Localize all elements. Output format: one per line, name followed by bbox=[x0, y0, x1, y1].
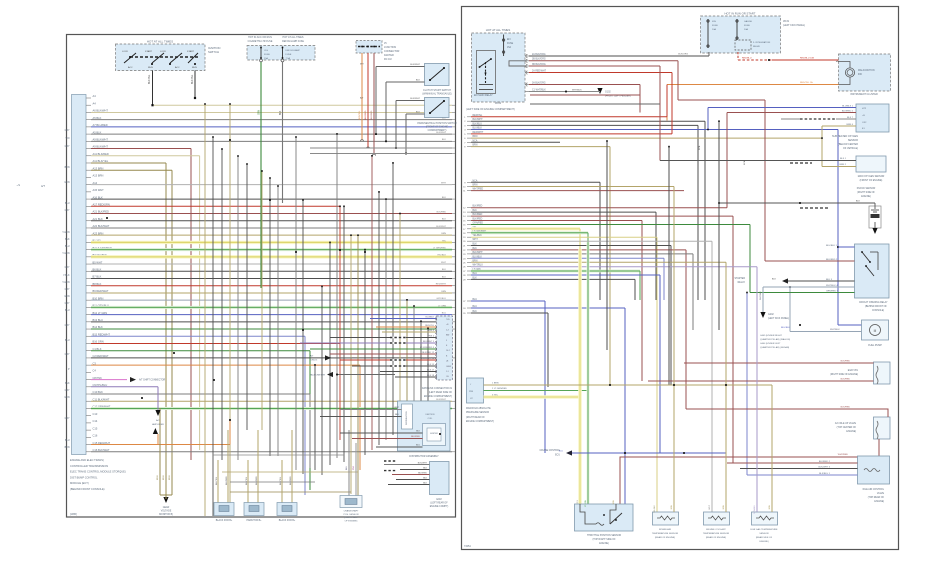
svg-text:BLU: BLU bbox=[65, 246, 70, 248]
svg-text:A/T SHIFT CONNECTOR: A/T SHIFT CONNECTOR bbox=[139, 379, 166, 382]
svg-text:HOT IN RUN OR START: HOT IN RUN OR START bbox=[725, 12, 756, 16]
svg-text:(RIGHT SIDE: (RIGHT SIDE bbox=[344, 517, 358, 519]
svg-text:3 YEL: 3 YEL bbox=[492, 395, 499, 397]
svg-text:LOCK: LOCK bbox=[160, 51, 166, 53]
svg-text:(LEFT SIDE OF ENGINE COMPARTME: (LEFT SIDE OF ENGINE COMPARTMENT) bbox=[466, 108, 515, 111]
svg-text:RED/YEL: RED/YEL bbox=[425, 325, 435, 327]
svg-text:DIST BUMP CONTROL: DIST BUMP CONTROL bbox=[70, 475, 98, 479]
svg-text:ACC: ACC bbox=[128, 66, 133, 69]
svg-text:FUSE: FUSE bbox=[264, 54, 270, 56]
svg-text:(REAR SIDE OF: (REAR SIDE OF bbox=[756, 536, 773, 539]
svg-text:WHT: WHT bbox=[441, 262, 447, 264]
svg-text:3A BLK/ORG: 3A BLK/ORG bbox=[532, 81, 546, 84]
svg-text:G202: G202 bbox=[768, 314, 774, 316]
svg-text:BLK/ORG: BLK/ORG bbox=[678, 54, 688, 56]
svg-text:JB #1: JB #1 bbox=[783, 20, 790, 23]
svg-text:ENGINE): ENGINE) bbox=[846, 431, 856, 433]
svg-text:BLK/RED: BLK/RED bbox=[411, 436, 420, 438]
svg-text:RUN: RUN bbox=[148, 67, 153, 69]
svg-text:2 LT GRN/RED: 2 LT GRN/RED bbox=[492, 388, 507, 390]
svg-text:WHT/BLK: WHT/BLK bbox=[572, 89, 582, 91]
svg-text:GRY/BLU: GRY/BLU bbox=[436, 298, 446, 300]
svg-text:IND: IND bbox=[858, 74, 862, 76]
svg-text:BLU: BLU bbox=[416, 445, 421, 447]
svg-text:10A: 10A bbox=[744, 28, 748, 31]
svg-text:FUEL PUMP: FUEL PUMP bbox=[868, 344, 882, 347]
svg-text:BLK 18: BLK 18 bbox=[427, 375, 435, 377]
svg-text:ACC: ACC bbox=[175, 66, 180, 69]
svg-text:BLK/RED 2: BLK/RED 2 bbox=[826, 259, 838, 261]
svg-text:BLK/RED 2: BLK/RED 2 bbox=[819, 461, 831, 463]
svg-text:GRY: GRY bbox=[65, 303, 70, 305]
svg-text:DEFOG/LAMP: DEFOG/LAMP bbox=[286, 49, 301, 52]
svg-text:BLK/YEL: BLK/YEL bbox=[149, 74, 151, 84]
svg-text:A4: A4 bbox=[93, 94, 97, 98]
svg-text:RED/WHT 14: RED/WHT 14 bbox=[421, 358, 434, 360]
svg-text:BLK 15: BLK 15 bbox=[427, 364, 435, 366]
svg-text:7.5A: 7.5A bbox=[286, 57, 291, 60]
svg-text:BLU: BLU bbox=[346, 466, 348, 470]
svg-text:EGR VSV: EGR VSV bbox=[848, 370, 859, 372]
svg-text:CRANKSHAFT: CRANKSHAFT bbox=[344, 510, 359, 513]
svg-text:GRY: GRY bbox=[65, 354, 70, 356]
svg-text:BLK/WHT: BLK/WHT bbox=[410, 98, 420, 100]
svg-text:GRY: GRY bbox=[65, 390, 70, 392]
svg-text:C4: C4 bbox=[93, 369, 97, 373]
svg-text:BLACK FOR B+: BLACK FOR B+ bbox=[279, 519, 296, 522]
svg-text:GRN: GRN bbox=[259, 110, 261, 115]
svg-text:RED/BLU: RED/BLU bbox=[742, 58, 752, 60]
svg-text:WHT: WHT bbox=[441, 183, 447, 185]
svg-text:PNK: PNK bbox=[353, 465, 355, 470]
svg-text:MALFUNCTION: MALFUNCTION bbox=[858, 69, 875, 72]
svg-text:BLK: BLK bbox=[65, 239, 70, 241]
svg-text:A15 WHT: A15 WHT bbox=[93, 188, 105, 192]
svg-text:(REAR OF ENGINE): (REAR OF ENGINE) bbox=[706, 536, 726, 539]
svg-text:(BELOW CENTER: (BELOW CENTER bbox=[838, 143, 858, 146]
svg-text:AMPLIFIER: AMPLIFIER bbox=[152, 423, 164, 426]
svg-text:TEMPERATURE SENSOR: TEMPERATURE SENSOR bbox=[703, 532, 730, 535]
svg-text:HOT AT ALL TIMES: HOT AT ALL TIMES bbox=[283, 36, 304, 39]
svg-text:BLU: BLU bbox=[65, 440, 70, 442]
svg-text:BLK: BLK bbox=[772, 279, 777, 281]
svg-text:RUN: RUN bbox=[192, 67, 197, 69]
svg-text:BLK 1: BLK 1 bbox=[840, 158, 847, 160]
svg-text:BLU/BLK: BLU/BLK bbox=[425, 317, 434, 319]
svg-text:C16: C16 bbox=[93, 434, 98, 438]
svg-text:PARK/NEUTRAL POSITION SWITCH: PARK/NEUTRAL POSITION SWITCH bbox=[417, 122, 457, 125]
svg-text:GRY: GRY bbox=[65, 289, 70, 291]
svg-text:WHT/RED: WHT/RED bbox=[838, 454, 849, 456]
svg-text:BRN: BRN bbox=[65, 447, 70, 449]
svg-text:BLU/BLK: BLU/BLK bbox=[781, 327, 791, 329]
svg-text:C14: C14 bbox=[93, 419, 98, 423]
svg-text:WHT: WHT bbox=[709, 504, 711, 509]
svg-text:BLK: BLK bbox=[395, 414, 400, 416]
svg-text:BLK/RED: BLK/RED bbox=[418, 473, 427, 475]
svg-text:TACHOMETER: TACHOMETER bbox=[310, 374, 326, 377]
svg-text:LT GRN: LT GRN bbox=[438, 305, 446, 307]
svg-text:BLK/RED: BLK/RED bbox=[365, 110, 367, 120]
svg-text:ELEC TRANS CONTROL MODULE STO: ELEC TRANS CONTROL MODULE STORQUE) bbox=[70, 470, 126, 474]
svg-text:BLK: BLK bbox=[442, 197, 447, 199]
svg-text:GEAR: GEAR bbox=[163, 506, 170, 509]
svg-text:RED/BLU 10B: RED/BLU 10B bbox=[800, 58, 815, 60]
svg-text:JUNCTION: JUNCTION bbox=[384, 46, 396, 49]
svg-text:OX2: OX2 bbox=[862, 122, 867, 124]
svg-text:SUB HEATED OXYGEN: SUB HEATED OXYGEN bbox=[832, 135, 858, 138]
svg-text:(RIGHT REAR OF: (RIGHT REAR OF bbox=[466, 416, 485, 419]
svg-text:BRN: BRN bbox=[441, 233, 446, 235]
svg-text:Y-GRN: Y-GRN bbox=[62, 253, 70, 255]
svg-text:BRN 3: BRN 3 bbox=[428, 330, 435, 332]
svg-text:BLK: BLK bbox=[280, 110, 282, 115]
svg-text:[1995]: [1995] bbox=[70, 513, 77, 516]
svg-text:FUSE: FUSE bbox=[744, 25, 750, 27]
svg-text:BRN: BRN bbox=[157, 475, 159, 480]
svg-text:MAIN OXYGEN SENSOR: MAIN OXYGEN SENSOR bbox=[858, 175, 885, 178]
svg-text:PRESSURE SENSOR: PRESSURE SENSOR bbox=[466, 412, 489, 414]
svg-text:IGN: IGN bbox=[712, 21, 716, 23]
svg-text:LT GRN: LT GRN bbox=[585, 499, 587, 507]
svg-text:10-2: 10-2 bbox=[446, 350, 450, 352]
svg-text:CONSOLE): CONSOLE) bbox=[872, 310, 884, 312]
svg-text:GRN: GRN bbox=[64, 397, 69, 399]
svg-text:BLK/RED: BLK/RED bbox=[371, 110, 373, 120]
svg-text:STARTER: STARTER bbox=[734, 277, 745, 280]
svg-text:10A: 10A bbox=[712, 28, 716, 31]
svg-text:BLK/WHT 3: BLK/WHT 3 bbox=[818, 466, 830, 468]
svg-text:GAUGE: GAUGE bbox=[744, 20, 752, 23]
svg-text:(LEFT REAR SIDE OF: (LEFT REAR SIDE OF bbox=[429, 391, 453, 394]
svg-text:BLK: BLK bbox=[442, 219, 447, 221]
svg-text:(RIGHT SIDE OF ENGINE): (RIGHT SIDE OF ENGINE) bbox=[830, 374, 858, 376]
svg-text:CONNECTOR: CONNECTOR bbox=[384, 50, 400, 53]
svg-text:BLK/RED: BLK/RED bbox=[841, 361, 851, 363]
svg-text:A/C: A/C bbox=[156, 419, 160, 422]
svg-text:BLK/YEL: BLK/YEL bbox=[192, 74, 194, 84]
svg-text:SENSOR: SENSOR bbox=[759, 533, 769, 535]
svg-text:DISTRIBUTOR: DISTRIBUTOR bbox=[406, 411, 408, 425]
svg-text:BLK: BLK bbox=[856, 201, 861, 203]
svg-text:NCA: NCA bbox=[698, 145, 701, 150]
svg-text:BLK: BLK bbox=[423, 468, 428, 470]
svg-text:OIL: OIL bbox=[446, 376, 449, 378]
svg-text:BRN: BRN bbox=[441, 291, 446, 293]
svg-text:EGR GAS TEMPERATURE: EGR GAS TEMPERATURE bbox=[751, 528, 778, 531]
svg-text:LT GRN/RED 9: LT GRN/RED 9 bbox=[420, 347, 435, 349]
svg-text:BLK/RED: BLK/RED bbox=[226, 476, 228, 485]
svg-text:(FRONT LEFT FENDER): (FRONT LEFT FENDER) bbox=[605, 96, 631, 98]
svg-text:ENGINE AND ELEC TRANS): ENGINE AND ELEC TRANS) bbox=[70, 458, 104, 462]
svg-text:3B BLK/ORG: 3B BLK/ORG bbox=[532, 64, 546, 66]
svg-text:A13 BRN: A13 BRN bbox=[93, 174, 104, 178]
svg-text:(NEAR OF ENGINE): (NEAR OF ENGINE) bbox=[655, 536, 675, 539]
svg-text:BRN: BRN bbox=[613, 499, 615, 504]
svg-text:BLK/WHT: BLK/WHT bbox=[410, 64, 420, 66]
svg-text:A/C IDLE UP VALVE: A/C IDLE UP VALVE bbox=[835, 422, 857, 425]
svg-text:BLU: BLU bbox=[65, 340, 70, 342]
svg-text:BLK/RED: BLK/RED bbox=[256, 476, 258, 485]
svg-text:YEL/BLK: YEL/BLK bbox=[437, 255, 446, 257]
svg-text:HOT AT ALL TIMES: HOT AT ALL TIMES bbox=[147, 40, 173, 44]
svg-text:HOT AT ALL TIMES: HOT AT ALL TIMES bbox=[486, 28, 511, 32]
svg-text:RED/YEL 1A: RED/YEL 1A bbox=[800, 81, 813, 84]
svg-text:(LEFT REAR OF: (LEFT REAR OF bbox=[430, 502, 448, 505]
svg-text:FUSE: FUSE bbox=[712, 25, 718, 27]
svg-text:PARK/TOR B+: PARK/TOR B+ bbox=[246, 519, 262, 522]
svg-text:Y-GRN: Y-GRN bbox=[62, 232, 70, 234]
svg-text:CIRCUIT OPENING RELAY: CIRCUIT OPENING RELAY bbox=[859, 301, 888, 304]
svg-text:BLU: BLU bbox=[65, 203, 70, 205]
svg-text:ENGINE): ENGINE) bbox=[874, 501, 884, 503]
svg-text:ENGINE): ENGINE) bbox=[759, 541, 768, 543]
svg-text:RELAY: RELAY bbox=[738, 281, 746, 284]
svg-text:CIG: CIG bbox=[264, 50, 268, 52]
svg-text:BLK/YEL: BLK/YEL bbox=[246, 476, 248, 485]
svg-text:WHT/BLK: WHT/BLK bbox=[760, 290, 762, 300]
svg-text:ENGINE COMPARTMENT): ENGINE COMPARTMENT) bbox=[466, 420, 494, 423]
svg-text:(W/MANUAL TRANSAXLE): (W/MANUAL TRANSAXLE) bbox=[422, 93, 451, 96]
svg-text:EFI: EFI bbox=[507, 39, 511, 41]
svg-text:CONTROLLER TRANSMISSION: CONTROLLER TRANSMISSION bbox=[70, 464, 108, 468]
svg-text:15A: 15A bbox=[507, 46, 512, 49]
svg-text:ENGINE): ENGINE) bbox=[599, 543, 609, 545]
svg-text:DEFOG/LAMP FUSE: DEFOG/LAMP FUSE bbox=[282, 40, 304, 43]
svg-text:Y-GRN: Y-GRN bbox=[62, 282, 70, 284]
svg-text:ENGINE COMPARTMENT): ENGINE COMPARTMENT) bbox=[424, 395, 452, 398]
svg-text:VOLTAGE: VOLTAGE bbox=[161, 510, 172, 513]
svg-text:ENGINE): ENGINE) bbox=[861, 196, 871, 198]
svg-text:BLU/BLK 1: BLU/BLK 1 bbox=[826, 245, 838, 247]
svg-text:M/T: M/T bbox=[360, 64, 364, 66]
svg-text:BLK: BLK bbox=[442, 269, 447, 271]
svg-text:OF ENGINE): OF ENGINE) bbox=[345, 520, 358, 522]
svg-text:2A RED/WHT: 2A RED/WHT bbox=[532, 69, 547, 72]
svg-text:DISTRIBUTOR ASSEMBLY: DISTRIBUTOR ASSEMBLY bbox=[409, 455, 439, 458]
svg-text:GRY: GRY bbox=[65, 130, 70, 132]
svg-text:COMPARTMENT): COMPARTMENT) bbox=[428, 129, 447, 132]
svg-text:GRN: GRN bbox=[64, 182, 69, 184]
svg-text:BLK/RED: BLK/RED bbox=[841, 379, 851, 381]
svg-text:BRN 2: BRN 2 bbox=[840, 164, 847, 166]
svg-text:A4: A4 bbox=[93, 101, 97, 105]
svg-text:BRN: BRN bbox=[65, 167, 70, 169]
svg-text:THROTTLE POSITION SENSOR: THROTTLE POSITION SENSOR bbox=[587, 535, 621, 537]
svg-text:BLK 17: BLK 17 bbox=[427, 370, 435, 372]
svg-text:QUARTER PILLAR) (WAGON): QUARTER PILLAR) (WAGON) bbox=[760, 338, 790, 341]
svg-text:IDLE AIR CONTROL: IDLE AIR CONTROL bbox=[863, 488, 885, 491]
svg-text:EFI MAIN RELAY: EFI MAIN RELAY bbox=[474, 94, 493, 97]
svg-text:2A BLK/ORG: 2A BLK/ORG bbox=[532, 53, 546, 56]
svg-text:1-1: 1-1 bbox=[446, 371, 449, 373]
svg-text:BRN: BRN bbox=[769, 504, 771, 509]
svg-text:ENGINE COMPT): ENGINE COMPT) bbox=[430, 506, 449, 508]
svg-text:C1 WHT/BLK: C1 WHT/BLK bbox=[532, 89, 546, 91]
svg-text:QUARTER PILLAR) (SEDAN): QUARTER PILLAR) (SEDAN) bbox=[760, 346, 789, 349]
svg-text:VC: VC bbox=[470, 398, 473, 400]
svg-text:(FRONT OF ENGINE): (FRONT OF ENGINE) bbox=[860, 180, 883, 182]
svg-text:BLK 3: BLK 3 bbox=[826, 279, 833, 281]
svg-text:(BEHIND FRONT OF: (BEHIND FRONT OF bbox=[865, 306, 887, 308]
svg-text:ECU: ECU bbox=[555, 455, 560, 457]
svg-text:Y-BLK: Y-BLK bbox=[63, 275, 70, 277]
svg-text:(TOP CENTER OF: (TOP CENTER OF bbox=[837, 427, 857, 429]
svg-text:TEMPERATURE SENSOR: TEMPERATURE SENSOR bbox=[652, 532, 679, 535]
svg-text:MANIFOLD ABSOLUTE: MANIFOLD ABSOLUTE bbox=[466, 407, 491, 410]
svg-text:PIM: PIM bbox=[469, 391, 473, 393]
svg-text:DATA LINK CONNECTOR #1: DATA LINK CONNECTOR #1 bbox=[422, 387, 453, 390]
svg-text:RED/WHT: RED/WHT bbox=[436, 284, 447, 286]
svg-text:C13: C13 bbox=[93, 412, 98, 416]
svg-text:IGNITION: IGNITION bbox=[426, 414, 435, 416]
svg-text:RELAY: RELAY bbox=[753, 45, 761, 48]
svg-text:BLK/WHT: BLK/WHT bbox=[436, 226, 446, 228]
svg-text:(RIGHT SIDE OF: (RIGHT SIDE OF bbox=[857, 192, 875, 194]
svg-text:WHT: WHT bbox=[394, 407, 399, 409]
svg-text:GRY: GRY bbox=[65, 267, 70, 269]
svg-text:SENSOR: SENSOR bbox=[848, 139, 858, 142]
svg-text:BLK/BLU 1: BLK/BLU 1 bbox=[819, 473, 831, 475]
svg-text:START: START bbox=[145, 50, 153, 53]
svg-text:GRY: GRY bbox=[65, 418, 70, 420]
svg-text:ENGINE COOLANT: ENGINE COOLANT bbox=[706, 528, 726, 531]
svg-text:YEL/BLK: YEL/BLK bbox=[654, 504, 656, 513]
svg-text:BRN: BRN bbox=[671, 504, 673, 509]
svg-text:FUSE: FUSE bbox=[507, 43, 514, 45]
svg-text:1 BRN: 1 BRN bbox=[492, 383, 499, 385]
svg-text:BLK: BLK bbox=[416, 112, 421, 114]
svg-text:KNOCK SENSOR: KNOCK SENSOR bbox=[857, 188, 876, 190]
svg-text:5. INTEGRATION: 5. INTEGRATION bbox=[753, 41, 771, 44]
svg-text:⌐S: ⌐S bbox=[17, 183, 21, 187]
svg-text:NCA/BLU: NCA/BLU bbox=[753, 504, 756, 513]
svg-text:G102: G102 bbox=[605, 92, 611, 94]
svg-text:GRY: GRY bbox=[65, 325, 70, 327]
svg-text:(ONLY): (ONLY) bbox=[310, 360, 318, 362]
svg-text:(LEFT KICK PANEL): (LEFT KICK PANEL) bbox=[783, 24, 805, 27]
svg-text:PNK 4: PNK 4 bbox=[428, 336, 435, 338]
svg-text:WHT/BLK 4: WHT/BLK 4 bbox=[826, 285, 838, 287]
svg-text:HOT IN ACC OR RUN: HOT IN ACC OR RUN bbox=[248, 36, 272, 39]
svg-text:BLK/RED: BLK/RED bbox=[841, 407, 851, 409]
svg-text:INTAKE AIR: INTAKE AIR bbox=[659, 528, 671, 531]
svg-text:3B BLK/ORG: 3B BLK/ORG bbox=[532, 59, 546, 61]
svg-text:GRY: GRY bbox=[65, 146, 70, 148]
svg-text:IGNITER: IGNITER bbox=[430, 433, 438, 435]
svg-text:BLK/RED: BLK/RED bbox=[437, 211, 447, 213]
svg-text:MODULE (ECT): MODULE (ECT) bbox=[70, 481, 89, 485]
svg-text:ECM: ECM bbox=[436, 499, 441, 501]
svg-text:CAS3: CAS3 bbox=[446, 365, 451, 368]
svg-text:INSTRUMENT CLUSTER: INSTRUMENT CLUSTER bbox=[850, 93, 878, 96]
svg-text:START: START bbox=[187, 50, 195, 53]
svg-text:LOCK: LOCK bbox=[122, 51, 128, 53]
svg-text:BLK: BLK bbox=[442, 276, 447, 278]
svg-text:GRY: GRY bbox=[65, 210, 70, 212]
svg-text:BLK/RED: BLK/RED bbox=[290, 476, 292, 485]
svg-text:FUSE: FUSE bbox=[286, 54, 292, 56]
svg-text:BRN: BRN bbox=[723, 504, 725, 509]
svg-text:VALVE: VALVE bbox=[877, 492, 885, 495]
svg-text:SWITCH: SWITCH bbox=[208, 50, 219, 54]
svg-text:RC 1M: RC 1M bbox=[384, 58, 391, 61]
svg-text:BLU: BLU bbox=[442, 313, 447, 315]
svg-text:GRN: GRN bbox=[64, 296, 69, 298]
svg-text:73454: 73454 bbox=[464, 545, 471, 548]
svg-text:BLK/YEL: BLK/YEL bbox=[280, 476, 282, 485]
svg-text:BLK: BLK bbox=[416, 80, 421, 82]
svg-text:BLK/WHT: BLK/WHT bbox=[436, 132, 446, 134]
svg-text:JB #2: JB #2 bbox=[495, 102, 502, 105]
svg-text:BLU/WHT 5: BLU/WHT 5 bbox=[423, 341, 435, 343]
svg-text:BLK/YEL: BLK/YEL bbox=[216, 476, 218, 485]
svg-text:BLACK FOR B+: BLACK FOR B+ bbox=[216, 519, 233, 522]
svg-text:MONITOR B): MONITOR B) bbox=[159, 514, 173, 516]
svg-text:15A: 15A bbox=[264, 57, 268, 60]
svg-text:IGNITER: IGNITER bbox=[384, 54, 394, 57]
svg-text:WHT/BLK: WHT/BLK bbox=[830, 329, 840, 331]
svg-text:(BEHIND FRONT CONSOLE): (BEHIND FRONT CONSOLE) bbox=[70, 487, 105, 491]
svg-text:TXD: TXD bbox=[446, 319, 450, 321]
svg-text:LT GRN/RED: LT GRN/RED bbox=[433, 248, 446, 250]
svg-text:CRUISE CONTROL: CRUISE CONTROL bbox=[539, 450, 560, 452]
svg-text:5: 5 bbox=[446, 340, 447, 342]
svg-text:BLK: BLK bbox=[442, 139, 447, 141]
svg-text:(TOP RIGHT SIDE OF: (TOP RIGHT SIDE OF bbox=[593, 539, 617, 541]
svg-text:BLU: BLU bbox=[65, 310, 70, 312]
svg-text:GRN/RED 5: GRN/RED 5 bbox=[826, 290, 839, 292]
svg-text:BRN: BRN bbox=[163, 475, 165, 480]
svg-text:NCA: NCA bbox=[743, 160, 746, 165]
svg-text:M: M bbox=[874, 329, 877, 333]
svg-text:BLK/RED 12: BLK/RED 12 bbox=[422, 352, 435, 354]
svg-text:2-3: 2-3 bbox=[446, 329, 449, 331]
svg-text:RED/YEL: RED/YEL bbox=[359, 110, 361, 120]
svg-text:CIGARETTE LTR FUSE: CIGARETTE LTR FUSE bbox=[248, 40, 273, 43]
svg-text:C15: C15 bbox=[93, 426, 98, 430]
svg-text:BLK/WHT: BLK/WHT bbox=[418, 463, 428, 465]
svg-text:(FRONT OF ENGINE: (FRONT OF ENGINE bbox=[426, 127, 449, 129]
svg-text:OF VEHICLE): OF VEHICLE) bbox=[843, 147, 858, 150]
svg-text:POS. SENSOR: POS. SENSOR bbox=[343, 514, 358, 516]
svg-text:BLK: BLK bbox=[423, 478, 428, 480]
svg-text:VIO: VIO bbox=[66, 138, 70, 140]
svg-text:BRN: BRN bbox=[169, 475, 171, 480]
svg-text:G405 (UNDER RIGHT: G405 (UNDER RIGHT bbox=[760, 335, 783, 337]
svg-text:A/T: A/T bbox=[41, 184, 45, 188]
svg-text:(TOP REAR OF: (TOP REAR OF bbox=[868, 496, 885, 499]
svg-text:BLK: BLK bbox=[416, 431, 421, 433]
svg-text:G404 (UNDER LEFT: G404 (UNDER LEFT bbox=[760, 343, 781, 345]
svg-text:BLK: BLK bbox=[423, 483, 428, 485]
svg-text:(LEFT KICK PANEL): (LEFT KICK PANEL) bbox=[768, 317, 789, 320]
svg-text:BLK: BLK bbox=[65, 383, 70, 385]
